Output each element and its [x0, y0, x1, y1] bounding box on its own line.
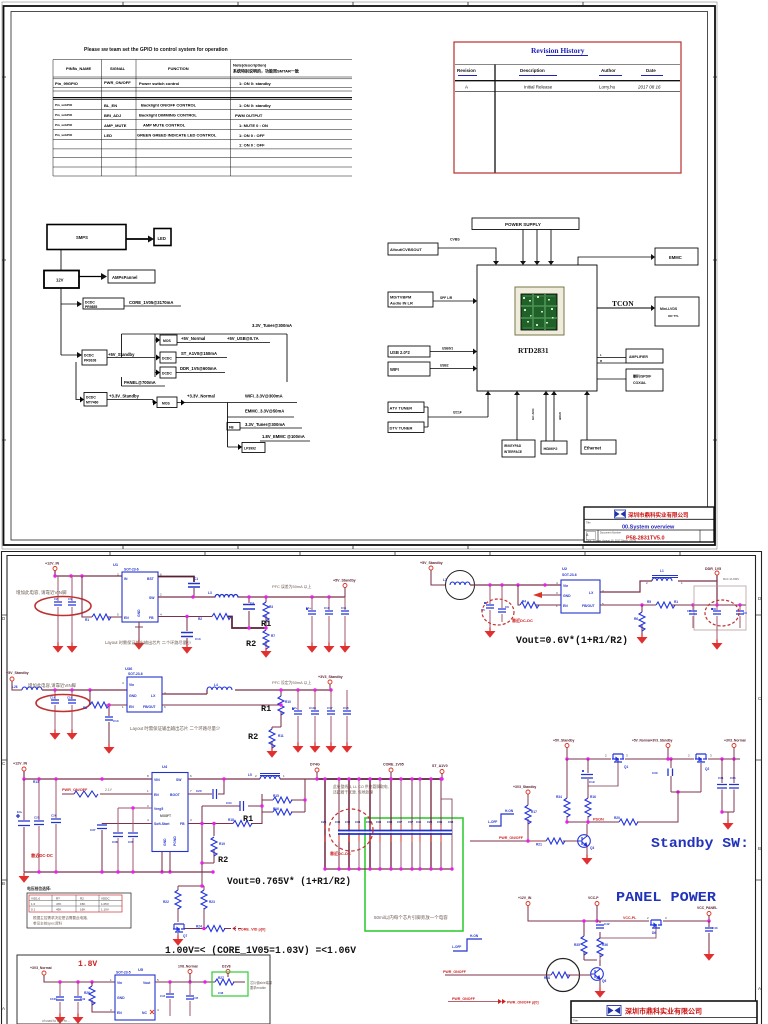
resistor R26 — [84, 982, 115, 1012]
svg-text:+3.3V_Standby: +3.3V_Standby — [109, 394, 140, 399]
wire FB — [158, 616, 212, 618]
svg-text:Please sw team set the GPIO to: Please sw team set the GPIO to control s… — [84, 47, 228, 53]
node +5V_Standby — [333, 579, 356, 598]
svg-text:VIN: VIN — [154, 778, 160, 782]
svg-text:Initial Release: Initial Release — [524, 85, 553, 90]
svg-text:Date: Date — [646, 68, 656, 73]
svg-text:L-OFF: L-OFF — [452, 945, 461, 949]
capacitor E2 — [292, 690, 302, 743]
resistor R18 — [228, 818, 252, 827]
resistor R17 — [525, 805, 537, 824]
svg-text:R35: R35 — [574, 943, 580, 947]
capacitor C44 — [160, 982, 174, 1016]
svg-text:VCC-PL: VCC-PL — [623, 916, 637, 920]
svg-text:MD/TVBPM: MD/TVBPM — [390, 295, 412, 300]
ground — [582, 855, 593, 865]
svg-text:C33: C33 — [730, 776, 736, 780]
H-ON / L-OFF step — [452, 934, 482, 951]
capacitor C37 soft-start — [90, 824, 152, 873]
cap plates (merged rows) — [338, 831, 452, 835]
svg-text:IR/KEYPAD: IR/KEYPAD — [504, 444, 522, 448]
svg-text:FB: FB — [180, 822, 185, 826]
svg-text:WIFI_3.3V@300mA: WIFI_3.3V@300mA — [245, 394, 283, 399]
svg-text:+3V3_Standby: +3V3_Standby — [318, 675, 343, 679]
svg-text:HDMI: HDMI — [558, 412, 562, 420]
svg-text:12V: 12V — [56, 278, 64, 283]
capacitor C19b — [581, 759, 595, 798]
ground — [307, 643, 318, 653]
svg-text:C8: C8 — [712, 607, 716, 611]
svg-text:INTERFACE: INTERFACE — [504, 450, 522, 454]
svg-text:GREEN GREED INDICATE LED CONTR: GREEN GREED INDICATE LED CONTROL — [137, 133, 217, 138]
svg-text:A: A — [465, 85, 468, 90]
wire to IC — [470, 584, 561, 586]
ground — [310, 743, 321, 753]
highlight ellipse dashed — [482, 599, 514, 625]
DCDC block DDR_1V5 — [160, 367, 176, 378]
svg-text:PFC 设定为50mA 以上: PFC 设定为50mA 以上 — [272, 680, 311, 685]
svg-text:U1: U1 — [113, 562, 119, 567]
svg-text:DCDC: DCDC — [86, 396, 96, 400]
svg-text:L1: L1 — [660, 569, 664, 573]
svg-text:TCON: TCON — [612, 299, 634, 308]
svg-text:GND: GND — [129, 694, 137, 698]
svg-text:Layout 时需保证输出输出芯片 二个环路尽量少: Layout 时需保证输出输出芯片 二个环路尽量少 — [130, 725, 221, 732]
svg-text:L3: L3 — [208, 591, 212, 595]
svg-text:C19: C19 — [67, 696, 73, 700]
resistor R19 — [211, 837, 225, 856]
svg-text:POWER SUPPLY: POWER SUPPLY — [505, 222, 541, 227]
svg-text:C38: C38 — [112, 840, 118, 844]
LED block — [154, 229, 171, 246]
svg-text:Q6: Q6 — [602, 979, 606, 983]
ground — [134, 640, 145, 650]
svg-text:EN: EN — [154, 793, 159, 797]
svg-text:1: ON 0: standby: 1: ON 0: standby — [239, 103, 272, 108]
svg-text:FB: FB — [149, 616, 154, 620]
svg-text:C32: C32 — [345, 820, 351, 824]
svg-text:L: L — [600, 353, 602, 357]
svg-text:1V8_Normal: 1V8_Normal — [178, 965, 198, 969]
svg-text:CORE_VID p[0]: CORE_VID p[0] — [238, 928, 266, 932]
svg-text:EN: EN — [563, 604, 568, 608]
svg-text:U4: U4 — [162, 764, 168, 769]
svg-text:PIN№_NAME: PIN№_NAME — [66, 66, 91, 71]
DCDC PR9108 block — [82, 350, 107, 365]
logo — [615, 510, 626, 518]
MOS block — [160, 335, 177, 345]
capacitor C14 — [50, 690, 59, 730]
svg-text:50mil以内每个芯片引脚旁放一个电容: 50mil以内每个芯片引脚旁放一个电容 — [374, 914, 448, 921]
svg-text:C37: C37 — [90, 828, 96, 832]
svg-text:R19: R19 — [219, 842, 225, 846]
ground — [342, 743, 353, 753]
capacitor E3 — [16, 779, 30, 872]
svg-text:BOOT: BOOT — [170, 793, 181, 797]
resistor R11 — [269, 729, 284, 748]
capacitor C42 — [596, 921, 610, 936]
mosfet Q7 — [173, 924, 187, 938]
svg-text:MX8FT: MX8FT — [160, 814, 172, 818]
svg-text:U2: U2 — [562, 566, 568, 571]
svg-text:C34: C34 — [355, 820, 361, 824]
svg-text:C1: C1 — [194, 577, 198, 581]
svg-text:增加此电容, 请靠近VIN脚: 增加此电容, 请靠近VIN脚 — [16, 589, 67, 596]
ground rail bottom — [24, 871, 213, 873]
svg-text:Revision History: Revision History — [531, 46, 585, 55]
svg-text:PWR_ONOFF: PWR_ONOFF — [452, 997, 476, 1001]
svg-text:C36: C36 — [376, 820, 382, 824]
capacitor C31 — [717, 759, 727, 812]
node +3V3_Standby — [513, 785, 536, 841]
junction dots — [53, 574, 56, 577]
svg-text:WIFI: WIFI — [390, 367, 399, 372]
svg-text:+5V_Standby: +5V_Standby — [333, 579, 356, 583]
sheet border frame — [2, 2, 717, 549]
svg-text:PWR_ONOFF: PWR_ONOFF — [443, 970, 467, 974]
svg-text:R10: R10 — [285, 700, 291, 704]
svg-text:靠近DC-DC: 靠近DC-DC — [512, 617, 533, 623]
resistor R16 — [273, 807, 292, 815]
svg-text:47K: 47K — [56, 902, 61, 906]
svg-text:3.3V_Tuner@300mA: 3.3V_Tuner@300mA — [252, 323, 292, 328]
svg-text:C13: C13 — [195, 637, 201, 641]
highlight ellipse — [36, 695, 90, 712]
svg-text:E2+: E2+ — [292, 706, 298, 710]
svg-text:C17: C17 — [327, 706, 333, 710]
node +3V3_Normal — [30, 966, 115, 982]
svg-text:VID1:0: VID1:0 — [31, 896, 41, 900]
ground — [704, 951, 715, 961]
ground — [595, 988, 606, 998]
svg-text:C4: C4 — [250, 601, 254, 605]
POWER SUPPLY block — [472, 218, 579, 230]
logo — [607, 1006, 621, 1016]
wires Q2 rail — [708, 758, 740, 760]
svg-text:H-ON: H-ON — [505, 809, 514, 813]
op IC U36 — [122, 666, 166, 712]
svg-text:Standby SW:: Standby SW: — [651, 836, 749, 852]
svg-text:芯片使able端裸: 芯片使able端裸 — [250, 980, 273, 985]
signal PWR_ONOFF port — [448, 997, 539, 1005]
node VCC_PANEL — [697, 906, 717, 921]
wire LX out — [162, 690, 330, 694]
svg-text:CORE_1V05@3170mA: CORE_1V05@3170mA — [129, 300, 173, 305]
capacitor C100 — [50, 982, 64, 1014]
mosfet Q5 — [650, 920, 662, 935]
capacitor C9 — [736, 605, 747, 628]
svg-text:电压档位选择:: 电压档位选择: — [27, 886, 51, 891]
capacitor C1 — [158, 577, 200, 598]
wire SMPS to LED — [126, 238, 149, 240]
node +5V_Normal+3V3_Standby — [625, 739, 694, 760]
chip photo — [515, 287, 564, 335]
capacitor C20 boot — [188, 779, 224, 799]
svg-text:R2: R2 — [248, 732, 258, 742]
svg-text:C11: C11 — [341, 606, 347, 610]
svg-text:L4: L4 — [214, 683, 218, 687]
svg-text:Title: Title — [586, 522, 591, 525]
svg-text:R11: R11 — [278, 734, 284, 738]
svg-text:R36: R36 — [602, 943, 608, 947]
svg-text:PR9855: PR9855 — [85, 305, 97, 309]
svg-text:Pin_xxGPIO: Pin_xxGPIO — [55, 113, 73, 117]
LP3992 block — [242, 443, 265, 453]
wire SMPS down — [60, 250, 62, 271]
svg-text:LP3992: LP3992 — [244, 447, 256, 451]
svg-text:R6: R6 — [634, 617, 638, 621]
op IC U1 buck — [113, 562, 162, 622]
DCDC PR9855 block — [83, 298, 124, 309]
node +3V3_Normal — [724, 739, 746, 760]
svg-text:BRI_ADJ: BRI_ADJ — [104, 113, 121, 118]
resistor R27 — [215, 976, 234, 985]
capacitor C13 — [181, 617, 201, 645]
wire IC gnd pin — [138, 622, 140, 640]
resistor R6 — [634, 605, 645, 634]
resistor R2 — [198, 614, 231, 622]
svg-text:MOS: MOS — [162, 402, 170, 406]
ground — [19, 873, 30, 883]
dots on rails — [315, 777, 318, 780]
svg-text:C38: C38 — [387, 820, 393, 824]
svg-text:C35: C35 — [366, 820, 372, 824]
svg-text:C9: C9 — [743, 611, 747, 615]
svg-text:+5V_Standby: +5V_Standby — [420, 561, 443, 565]
capacitor C4 — [243, 597, 255, 628]
capacitor C6 — [498, 585, 509, 622]
transistor Q6 — [591, 960, 607, 988]
AMPLIFIER block — [626, 349, 663, 363]
svg-text:C28: C28 — [321, 820, 327, 824]
capacitor E1 — [306, 597, 316, 643]
svg-text:+5V_Normal+3V3_Standby: +5V_Normal+3V3_Standby — [632, 739, 673, 743]
svg-text:Mini-LVDS: Mini-LVDS — [660, 307, 678, 311]
svg-text:L5: L5 — [248, 773, 252, 777]
op IC U5 LDO — [110, 967, 159, 1020]
H-ON / L-OFF step — [488, 809, 514, 826]
svg-text:R4: R4 — [522, 600, 526, 604]
inductor L3 — [208, 591, 238, 598]
svg-text:ATV TUNER: ATV TUNER — [390, 406, 413, 411]
svg-text:+3V3_Standby: +3V3_Standby — [513, 785, 536, 789]
svg-text:+5V_Normal: +5V_Normal — [181, 336, 205, 341]
AMPsPannel block — [108, 270, 155, 283]
HDMI block — [541, 441, 567, 454]
capacitor C5 — [481, 585, 494, 628]
node +12V_IN — [45, 562, 59, 571]
svg-text:Vin: Vin — [117, 981, 122, 985]
svg-text:EN: EN — [117, 1011, 122, 1015]
capacitor C49 — [74, 982, 86, 1014]
svg-text:C101: C101 — [309, 706, 317, 710]
wires POWER SUPPLY to RTD — [523, 230, 551, 262]
svg-text:R18: R18 — [228, 818, 234, 822]
svg-text:1.10V: 1.10V — [101, 907, 109, 911]
node DDR_1V5 — [705, 567, 721, 575]
svg-text:USB2: USB2 — [440, 364, 449, 368]
capacitor C26 — [51, 779, 61, 872]
svg-text:B: B — [758, 846, 761, 851]
node +5V_Standby — [6, 671, 29, 690]
capacitor C30 — [652, 759, 701, 792]
svg-text:PGND: PGND — [173, 836, 177, 846]
green highlight — [212, 972, 248, 996]
ground — [53, 643, 64, 653]
svg-text:R13: R13 — [33, 780, 39, 784]
capacitor C2 — [54, 576, 62, 643]
svg-text:R24: R24 — [196, 925, 202, 929]
svg-text:COXIAL: COXIAL — [633, 381, 647, 385]
svg-text:C10: C10 — [324, 606, 330, 610]
wires — [178, 872, 228, 936]
wire 12V down bus — [61, 288, 77, 355]
ground — [712, 640, 723, 650]
svg-text:Description: Description — [520, 68, 545, 73]
svg-text:FB/OUT: FB/OUT — [582, 604, 596, 608]
Mini-LVDS block — [655, 297, 699, 326]
svg-text:C25: C25 — [34, 816, 40, 820]
svg-text:Power switch control: Power switch control — [139, 81, 179, 86]
svg-text:LX: LX — [151, 694, 156, 698]
capacitor C11 — [341, 597, 349, 643]
wire SW rail — [188, 778, 317, 780]
svg-text:R22: R22 — [163, 900, 169, 904]
node DY4G — [310, 763, 320, 780]
ground — [261, 648, 272, 658]
main SoC RTD2831 — [477, 265, 597, 391]
svg-text:R7: R7 — [271, 634, 275, 638]
svg-text:Pin_99GPIO: Pin_99GPIO — [55, 81, 78, 86]
node +5V_Standby — [420, 561, 446, 585]
svg-text:U5: U5 — [138, 967, 144, 972]
svg-text:AMPLIFIER: AMPLIFIER — [629, 355, 648, 359]
red pin stubs — [325, 825, 441, 842]
resistor R36 — [597, 936, 608, 957]
title block page1 — [584, 507, 714, 543]
resistor R22 — [163, 890, 181, 909]
svg-text:MAX 4A RMS: MAX 4A RMS — [723, 577, 739, 581]
svg-text:Q7: Q7 — [183, 934, 187, 938]
svg-text:GND: GND — [137, 609, 141, 617]
svg-text:E1+: E1+ — [306, 606, 312, 610]
svg-text:1.05V: 1.05V — [101, 902, 109, 906]
svg-text:DCDC: DCDC — [85, 301, 95, 305]
svg-text:Q1: Q1 — [624, 765, 628, 769]
svg-text:增加此电容,请靠近VIN脚: 增加此电容,请靠近VIN脚 — [28, 682, 77, 689]
wire Vout — [155, 981, 245, 983]
MOS block 2 — [157, 397, 177, 408]
svg-text:GND: GND — [117, 996, 125, 1000]
svg-text:0 1: 0 1 — [31, 907, 36, 911]
transistor Q3 — [563, 824, 594, 855]
node +12V_IN — [13, 762, 152, 780]
svg-text:C42: C42 — [604, 922, 610, 926]
svg-text:R1: R1 — [261, 704, 271, 714]
svg-text:L26: L26 — [12, 685, 18, 689]
svg-text:R20: R20 — [614, 816, 620, 820]
ground — [50, 730, 61, 740]
ground — [340, 643, 351, 653]
DCDC MT7460 block — [84, 393, 107, 407]
svg-text:R3: R3 — [269, 605, 273, 609]
svg-text:系统特别说明的，功能同SMTAR一致: 系统特别说明的，功能同SMTAR一致 — [233, 68, 300, 74]
svg-text:R2: R2 — [246, 639, 256, 649]
wire SW rail — [158, 596, 345, 598]
USB block — [388, 346, 430, 357]
svg-text:SOT-23-6: SOT-23-6 — [128, 672, 143, 676]
svg-text:深圳市鼎科实业有限公司: 深圳市鼎科实业有限公司 — [628, 511, 689, 519]
svg-text:BST: BST — [147, 577, 155, 581]
svg-text:+12V_IN: +12V_IN — [518, 896, 532, 900]
svg-text:C13: C13 — [113, 719, 119, 723]
svg-text:A: A — [2, 1006, 5, 1011]
ground — [485, 628, 496, 638]
ground — [293, 743, 304, 753]
svg-text:R?: R? — [56, 896, 60, 900]
svg-text:Vout: Vout — [143, 981, 151, 985]
SMPS block — [47, 225, 126, 250]
svg-text:Soft-Start: Soft-Start — [154, 822, 170, 826]
ground — [55, 1014, 66, 1024]
svg-text:C18: C18 — [343, 706, 349, 710]
WIFI block — [388, 362, 430, 376]
svg-text:Ethernet: Ethernet — [584, 446, 602, 451]
gate wire Q1 — [588, 762, 618, 786]
op IC U2 — [556, 566, 604, 613]
svg-text:FB/OUT: FB/OUT — [143, 705, 157, 709]
highlight dashed circle — [329, 809, 373, 851]
svg-text:R8: R8 — [83, 706, 87, 710]
svg-text:1: ON 0: standby: 1: ON 0: standby — [239, 81, 272, 86]
capacitor C45 — [186, 982, 199, 1016]
resistor R34 — [556, 759, 570, 822]
svg-text:Lorry.hu: Lorry.hu — [599, 85, 616, 90]
svg-text:Author: Author — [601, 68, 616, 73]
svg-text:DCDC: DCDC — [162, 357, 172, 361]
svg-text:SOT-23-6: SOT-23-6 — [562, 573, 577, 577]
ground — [324, 643, 335, 653]
svg-text:+12V_IN: +12V_IN — [45, 562, 59, 566]
node CORE_VID — [233, 927, 236, 931]
green highlight box — [365, 818, 463, 931]
svg-text:FB: FB — [229, 426, 234, 430]
svg-text:Document Number: Document Number — [600, 532, 621, 535]
red arrow gnd pin — [533, 592, 542, 598]
svg-text:Q3: Q3 — [590, 846, 594, 850]
svg-text:15K: 15K — [80, 902, 85, 906]
capacitor C8 — [711, 605, 721, 640]
Revision History table — [454, 42, 681, 173]
wire 12V to AMPsPannel — [79, 276, 102, 278]
svg-text:2017 08 16: 2017 08 16 — [637, 85, 661, 90]
svg-text:要求enable: 要求enable — [250, 985, 266, 990]
resistor R13 + PWR_ON/OFF — [33, 780, 152, 797]
svg-text:+5V_USB@0.7A: +5V_USB@0.7A — [227, 336, 259, 341]
IC gnd pins down — [162, 852, 170, 873]
svg-text:43K: 43K — [56, 907, 61, 911]
svg-text:R16: R16 — [590, 795, 596, 799]
svg-text:C43: C43 — [712, 926, 718, 930]
cap bank wires — [325, 779, 452, 869]
svg-text:1.8V_EMMC @100mA: 1.8V_EMMC @100mA — [262, 434, 305, 439]
node +12V_IN — [518, 896, 597, 921]
svg-text:IN: IN — [124, 577, 128, 581]
svg-text:Pin_xxGPIO: Pin_xxGPIO — [55, 103, 73, 107]
EMMC block — [655, 248, 698, 265]
svg-text:根据主控需求决定是否需要此电路,: 根据主控需求决定是否需要此电路, — [33, 915, 88, 920]
svg-text:1 0: 1 0 — [31, 902, 36, 906]
